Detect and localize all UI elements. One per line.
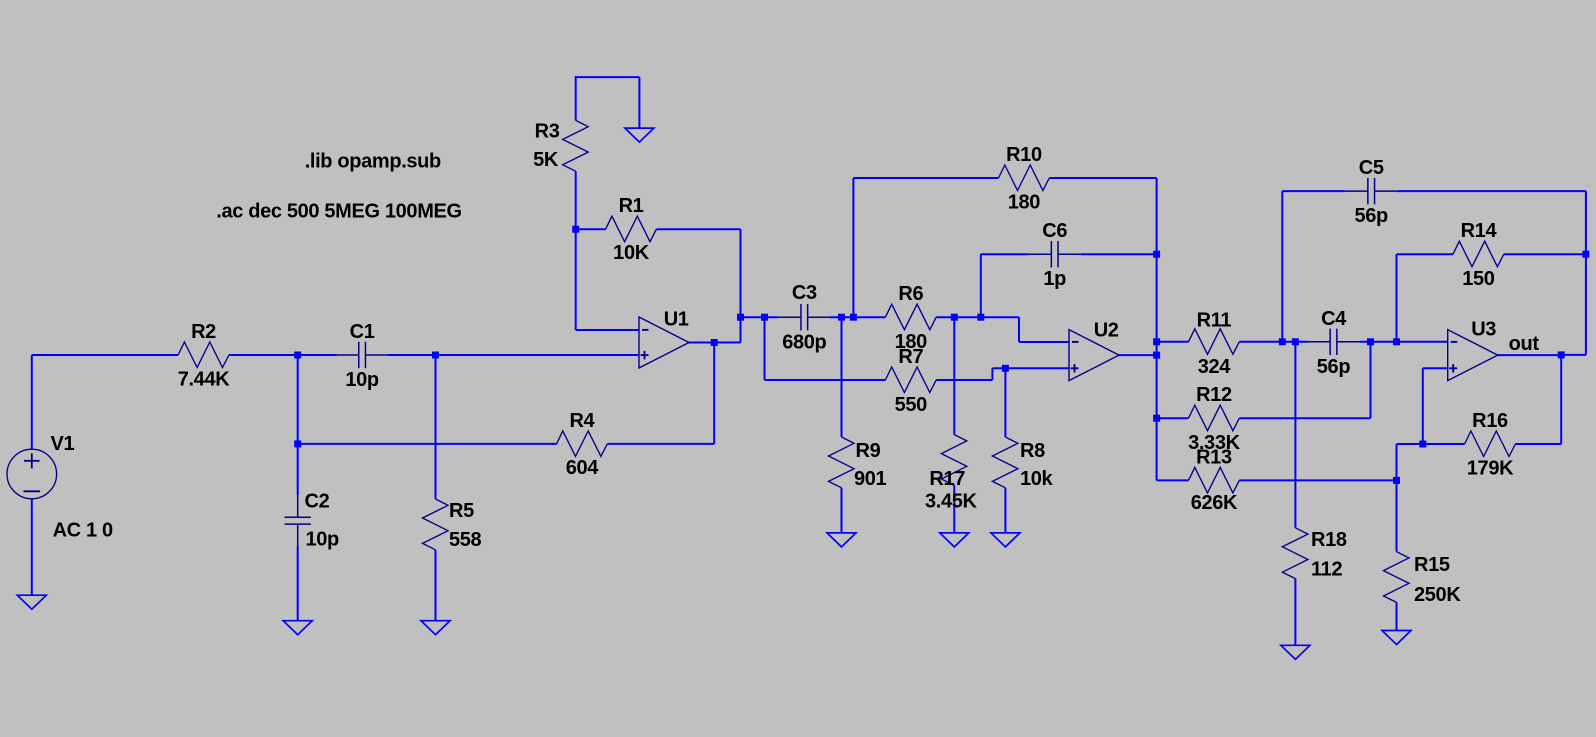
wire R3 top lead bbox=[575, 77, 577, 120]
wire C2 branch down bbox=[297, 355, 299, 495]
node C bbox=[572, 226, 579, 233]
resistor R4 bbox=[557, 431, 608, 457]
node D6 bbox=[951, 314, 958, 321]
capacitor C6 bbox=[1029, 253, 1052, 255]
wire C5 riser bbox=[1281, 191, 1283, 342]
svg-text:R11: R11 bbox=[1197, 309, 1232, 331]
wire U1 out bbox=[689, 342, 741, 344]
ground V1 bbox=[17, 595, 46, 609]
wire R7 up jog bbox=[991, 368, 993, 380]
wire R18 to ground bbox=[1294, 579, 1296, 646]
wire R7 drop bbox=[764, 317, 766, 380]
wire C4 to U3- bbox=[1360, 341, 1448, 343]
wire R12 left lead bbox=[1157, 417, 1189, 419]
wire C3 to R6 bbox=[830, 316, 885, 318]
svg-text:R15: R15 bbox=[1414, 554, 1450, 576]
svg-text:56p: 56p bbox=[1317, 356, 1351, 378]
resistor R10 bbox=[999, 165, 1050, 191]
wire C6 row left bbox=[981, 253, 1029, 255]
svg-text:R10: R10 bbox=[1006, 144, 1042, 166]
wire C3 row left bbox=[741, 316, 779, 318]
svg-text:R2: R2 bbox=[191, 321, 216, 343]
svg-text:R7: R7 bbox=[898, 346, 923, 368]
wire R15 drop bbox=[1396, 444, 1398, 552]
svg-text:604: 604 bbox=[566, 457, 600, 479]
svg-text:626K: 626K bbox=[1191, 492, 1238, 514]
wire R15 to ground bbox=[1396, 602, 1398, 630]
wire U3 out bbox=[1498, 354, 1562, 356]
svg-text:112: 112 bbox=[1311, 558, 1342, 580]
wire R16 riser bbox=[1560, 355, 1562, 444]
svg-text:R17: R17 bbox=[929, 468, 965, 490]
node H1 bbox=[1419, 441, 1426, 448]
resistor R9 bbox=[829, 437, 855, 488]
node G2 bbox=[1292, 338, 1299, 345]
svg-text:C1: C1 bbox=[350, 321, 375, 343]
resistor R6 bbox=[885, 304, 936, 330]
svg-text:R13: R13 bbox=[1196, 446, 1232, 468]
svg-text:7.44K: 7.44K bbox=[178, 368, 231, 390]
node D4 bbox=[838, 314, 845, 321]
wire R8 drop bbox=[1004, 368, 1006, 437]
svg-text:680p: 680p bbox=[782, 331, 826, 353]
wire R7 right lead bbox=[936, 379, 992, 381]
wire right bus drop bbox=[1156, 178, 1158, 480]
wire C2 to ground bbox=[297, 546, 299, 620]
wire R10 row right bbox=[1049, 177, 1156, 179]
svg-text:56p: 56p bbox=[1354, 205, 1388, 227]
wire R17 drop bbox=[953, 317, 955, 434]
capacitor C4 bbox=[1308, 341, 1331, 343]
node D3 bbox=[761, 314, 768, 321]
wire R2 to C1 bbox=[229, 354, 337, 356]
wire R9 to ground bbox=[841, 488, 843, 533]
wire R6 to C6 node bbox=[936, 316, 981, 318]
svg-text:3.45K: 3.45K bbox=[925, 491, 978, 513]
svg-text:R12: R12 bbox=[1196, 384, 1232, 406]
svg-text:150: 150 bbox=[1462, 268, 1495, 290]
wire R12 riser bbox=[1370, 342, 1372, 418]
voltage source V1 bbox=[7, 449, 57, 499]
wire gnd drop R3 bbox=[638, 77, 640, 128]
node A2 bbox=[432, 352, 439, 359]
resistor R14 bbox=[1453, 241, 1504, 267]
svg-text:C4: C4 bbox=[1321, 308, 1347, 330]
resistor R3 bbox=[563, 120, 589, 171]
svg-text:R8: R8 bbox=[1020, 440, 1045, 462]
svg-text:901: 901 bbox=[854, 468, 887, 490]
wire R1 left lead bbox=[576, 228, 606, 230]
svg-text:R16: R16 bbox=[1472, 410, 1508, 432]
ground R8 bbox=[991, 533, 1020, 547]
svg-text:U3: U3 bbox=[1471, 318, 1496, 340]
svg-text:out: out bbox=[1509, 333, 1540, 355]
wire R16 right lead bbox=[1515, 443, 1561, 445]
svg-text:C6: C6 bbox=[1042, 220, 1067, 242]
wire U2 minus jog a bbox=[981, 316, 1019, 318]
resistor R7 bbox=[885, 367, 936, 393]
wire U2 minus lead bbox=[1019, 341, 1069, 343]
wire R5 branch down bbox=[435, 355, 437, 499]
wire main row left bbox=[32, 354, 178, 356]
svg-text:R18: R18 bbox=[1311, 529, 1347, 551]
node G4 bbox=[1393, 338, 1400, 345]
svg-text:C2: C2 bbox=[305, 491, 330, 513]
wire V1 top lead bbox=[31, 355, 33, 450]
capacitor C1 bbox=[336, 354, 359, 356]
wire out jog bbox=[1561, 354, 1586, 356]
node D1 bbox=[711, 339, 718, 346]
wire C5 row right bbox=[1397, 190, 1586, 192]
svg-text:R5: R5 bbox=[449, 500, 474, 522]
wire R13 left lead bbox=[1157, 479, 1189, 481]
wire R14 riser bbox=[1396, 254, 1398, 342]
node F4 bbox=[1153, 415, 1160, 422]
svg-text:1p: 1p bbox=[1043, 268, 1066, 290]
resistor R8 bbox=[992, 437, 1018, 488]
svg-text:5K: 5K bbox=[533, 149, 559, 171]
op-amp U3 bbox=[1448, 330, 1498, 381]
ground R9 bbox=[827, 533, 856, 547]
resistor R16 bbox=[1465, 431, 1516, 457]
svg-text:10k: 10k bbox=[1020, 468, 1054, 490]
wire R3 bottom lead bbox=[575, 171, 577, 330]
svg-text:180: 180 bbox=[1008, 192, 1041, 214]
node G1 bbox=[1279, 338, 1286, 345]
wire R10 riser bbox=[852, 178, 854, 317]
resistor R15 bbox=[1384, 552, 1410, 603]
wire C2 row bbox=[298, 443, 557, 445]
svg-text:V1: V1 bbox=[51, 433, 75, 455]
wire C5 row left bbox=[1282, 190, 1345, 192]
wire R7 row left bbox=[765, 379, 886, 381]
wire R12 right lead bbox=[1239, 417, 1370, 419]
ground R18 bbox=[1281, 645, 1310, 659]
wire V1 bottom lead bbox=[31, 499, 33, 596]
svg-text:550: 550 bbox=[895, 394, 928, 416]
resistor R18 bbox=[1282, 528, 1308, 579]
wire R5 to ground bbox=[435, 550, 437, 621]
wire R8 to ground bbox=[1004, 488, 1006, 533]
svg-text:10K: 10K bbox=[613, 242, 650, 264]
wire U3 plus lead bbox=[1423, 367, 1448, 369]
op-amp U2 bbox=[1069, 330, 1119, 381]
svg-text:324: 324 bbox=[1198, 356, 1232, 378]
svg-text:179K: 179K bbox=[1467, 457, 1514, 479]
node D2 bbox=[737, 314, 744, 321]
wire U2 plus row bbox=[992, 367, 1069, 369]
node D5 bbox=[850, 314, 857, 321]
wire C6 row right bbox=[1081, 253, 1157, 255]
node H2 bbox=[1393, 477, 1400, 484]
op-amp U1 bbox=[639, 317, 689, 368]
svg-text:R9: R9 bbox=[856, 440, 881, 462]
node F2 bbox=[1153, 338, 1160, 345]
wire C1 to U1+ bbox=[388, 354, 639, 356]
svg-text:.lib opamp.sub: .lib opamp.sub bbox=[305, 151, 441, 173]
svg-text:U1: U1 bbox=[664, 308, 689, 330]
ground near R3 bbox=[625, 128, 654, 142]
resistor R12 bbox=[1189, 405, 1240, 431]
capacitor C2 bbox=[297, 495, 299, 518]
wire R16 row left bbox=[1397, 443, 1465, 445]
wire U3 plus riser bbox=[1422, 368, 1424, 444]
resistor R13 bbox=[1189, 467, 1240, 493]
wire R11 left lead bbox=[1157, 341, 1189, 343]
wire R4 corner up bbox=[713, 343, 715, 444]
capacitor C5 bbox=[1345, 190, 1368, 192]
svg-text:C3: C3 bbox=[792, 282, 817, 304]
wire U2 out bbox=[1119, 354, 1157, 356]
node D7 bbox=[977, 314, 984, 321]
ground R15 bbox=[1382, 631, 1411, 645]
svg-text:R4: R4 bbox=[569, 410, 595, 432]
wire right drop to out bbox=[1585, 191, 1587, 355]
ground C2 bbox=[283, 621, 312, 635]
wire R10 row left bbox=[853, 177, 998, 179]
node I1 bbox=[1558, 351, 1565, 358]
node G3 bbox=[1367, 338, 1374, 345]
resistor R2 bbox=[178, 342, 229, 368]
svg-text:10p: 10p bbox=[306, 529, 340, 551]
wire U2 minus jog b bbox=[1018, 317, 1020, 342]
svg-text:R1: R1 bbox=[619, 195, 644, 217]
wire R13 right lead bbox=[1239, 479, 1396, 481]
svg-text:U2: U2 bbox=[1094, 320, 1119, 342]
resistor R17 bbox=[941, 435, 967, 486]
capacitor C3 bbox=[778, 316, 801, 318]
wire C6 riser bbox=[980, 254, 982, 317]
node A1 bbox=[294, 352, 301, 359]
svg-text:R14: R14 bbox=[1461, 220, 1498, 242]
wire R4 to corner bbox=[607, 443, 714, 445]
wire R9 drop bbox=[841, 317, 843, 437]
resistor R5 bbox=[423, 499, 449, 550]
node F1 bbox=[1153, 251, 1160, 258]
svg-text:10p: 10p bbox=[345, 369, 379, 391]
wire R1 drop bbox=[740, 229, 742, 342]
svg-text:.ac dec 500 5MEG 100MEG: .ac dec 500 5MEG 100MEG bbox=[216, 200, 461, 222]
node I2 bbox=[1582, 251, 1589, 258]
svg-text:R3: R3 bbox=[535, 121, 560, 143]
resistor R11 bbox=[1189, 329, 1240, 355]
wire U1 minus lead bbox=[576, 329, 639, 331]
resistor R1 bbox=[606, 216, 657, 242]
svg-text:R6: R6 bbox=[898, 283, 923, 305]
node E1 bbox=[1002, 365, 1009, 372]
node F3 bbox=[1153, 352, 1160, 359]
wire R1 right lead bbox=[656, 228, 740, 230]
wire R11 to C4 bbox=[1239, 341, 1307, 343]
svg-text:250K: 250K bbox=[1414, 584, 1461, 606]
wire R3 top rail bbox=[575, 76, 640, 78]
node B1 bbox=[294, 440, 301, 447]
wire R14 left lead bbox=[1397, 253, 1454, 255]
wire R18 drop bbox=[1294, 342, 1296, 528]
svg-text:AC 1 0: AC 1 0 bbox=[53, 519, 113, 541]
ground R17 bbox=[940, 533, 969, 547]
ground R5 bbox=[421, 621, 450, 635]
wire R14 right lead bbox=[1504, 253, 1586, 255]
wire R17 to ground bbox=[953, 485, 955, 533]
svg-text:C5: C5 bbox=[1359, 157, 1384, 179]
svg-text:558: 558 bbox=[449, 529, 482, 551]
